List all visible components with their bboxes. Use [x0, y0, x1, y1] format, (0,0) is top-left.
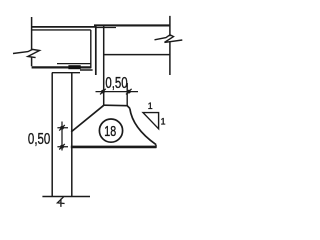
svg-text:18: 18 — [104, 122, 116, 139]
slab end bottom lip — [80, 69, 93, 71]
slope mark triangle — [143, 113, 159, 129]
svg-text:1: 1 — [148, 101, 153, 111]
top dimension tick left — [100, 89, 106, 95]
pier right edge — [71, 73, 73, 197]
girder top inner short line — [95, 27, 116, 29]
left break symbol — [13, 49, 40, 57]
left dimension tick top — [57, 125, 68, 131]
corbel top edge — [104, 105, 130, 108]
corbel right slope — [130, 108, 156, 144]
pier top — [52, 72, 80, 74]
girder top line — [94, 24, 170, 26]
left dimension line — [61, 122, 63, 151]
svg-text:0,50: 0,50 — [105, 74, 127, 91]
left slab right outer edge — [95, 27, 97, 75]
bearing pad — [68, 65, 80, 69]
corbel left slope — [71, 105, 104, 132]
left slab bottom inner line — [57, 63, 91, 65]
left slab top outer line — [32, 26, 97, 28]
right cut line — [169, 16, 171, 75]
girder underside — [104, 54, 170, 56]
left dimension tick bottom — [57, 144, 68, 150]
left slab bottom outer line — [32, 66, 91, 68]
left slab right inner edge — [90, 30, 92, 68]
top dimension line — [96, 91, 139, 93]
corbel right edge — [155, 145, 157, 148]
pedestal right edge — [126, 83, 128, 106]
bottom break line — [42, 196, 90, 198]
pier left edge — [51, 73, 53, 197]
bottom break zigzag — [57, 197, 64, 207]
top dimension tick right — [126, 89, 132, 95]
right break symbol — [155, 35, 183, 43]
left cut line — [31, 17, 33, 66]
corbel bottom — [71, 146, 157, 149]
left slab top inner line — [32, 29, 91, 31]
girder left edge — [103, 26, 105, 106]
svg-text:0,50: 0,50 — [28, 130, 50, 147]
svg-text:1: 1 — [161, 117, 166, 127]
position circle — [99, 119, 122, 142]
